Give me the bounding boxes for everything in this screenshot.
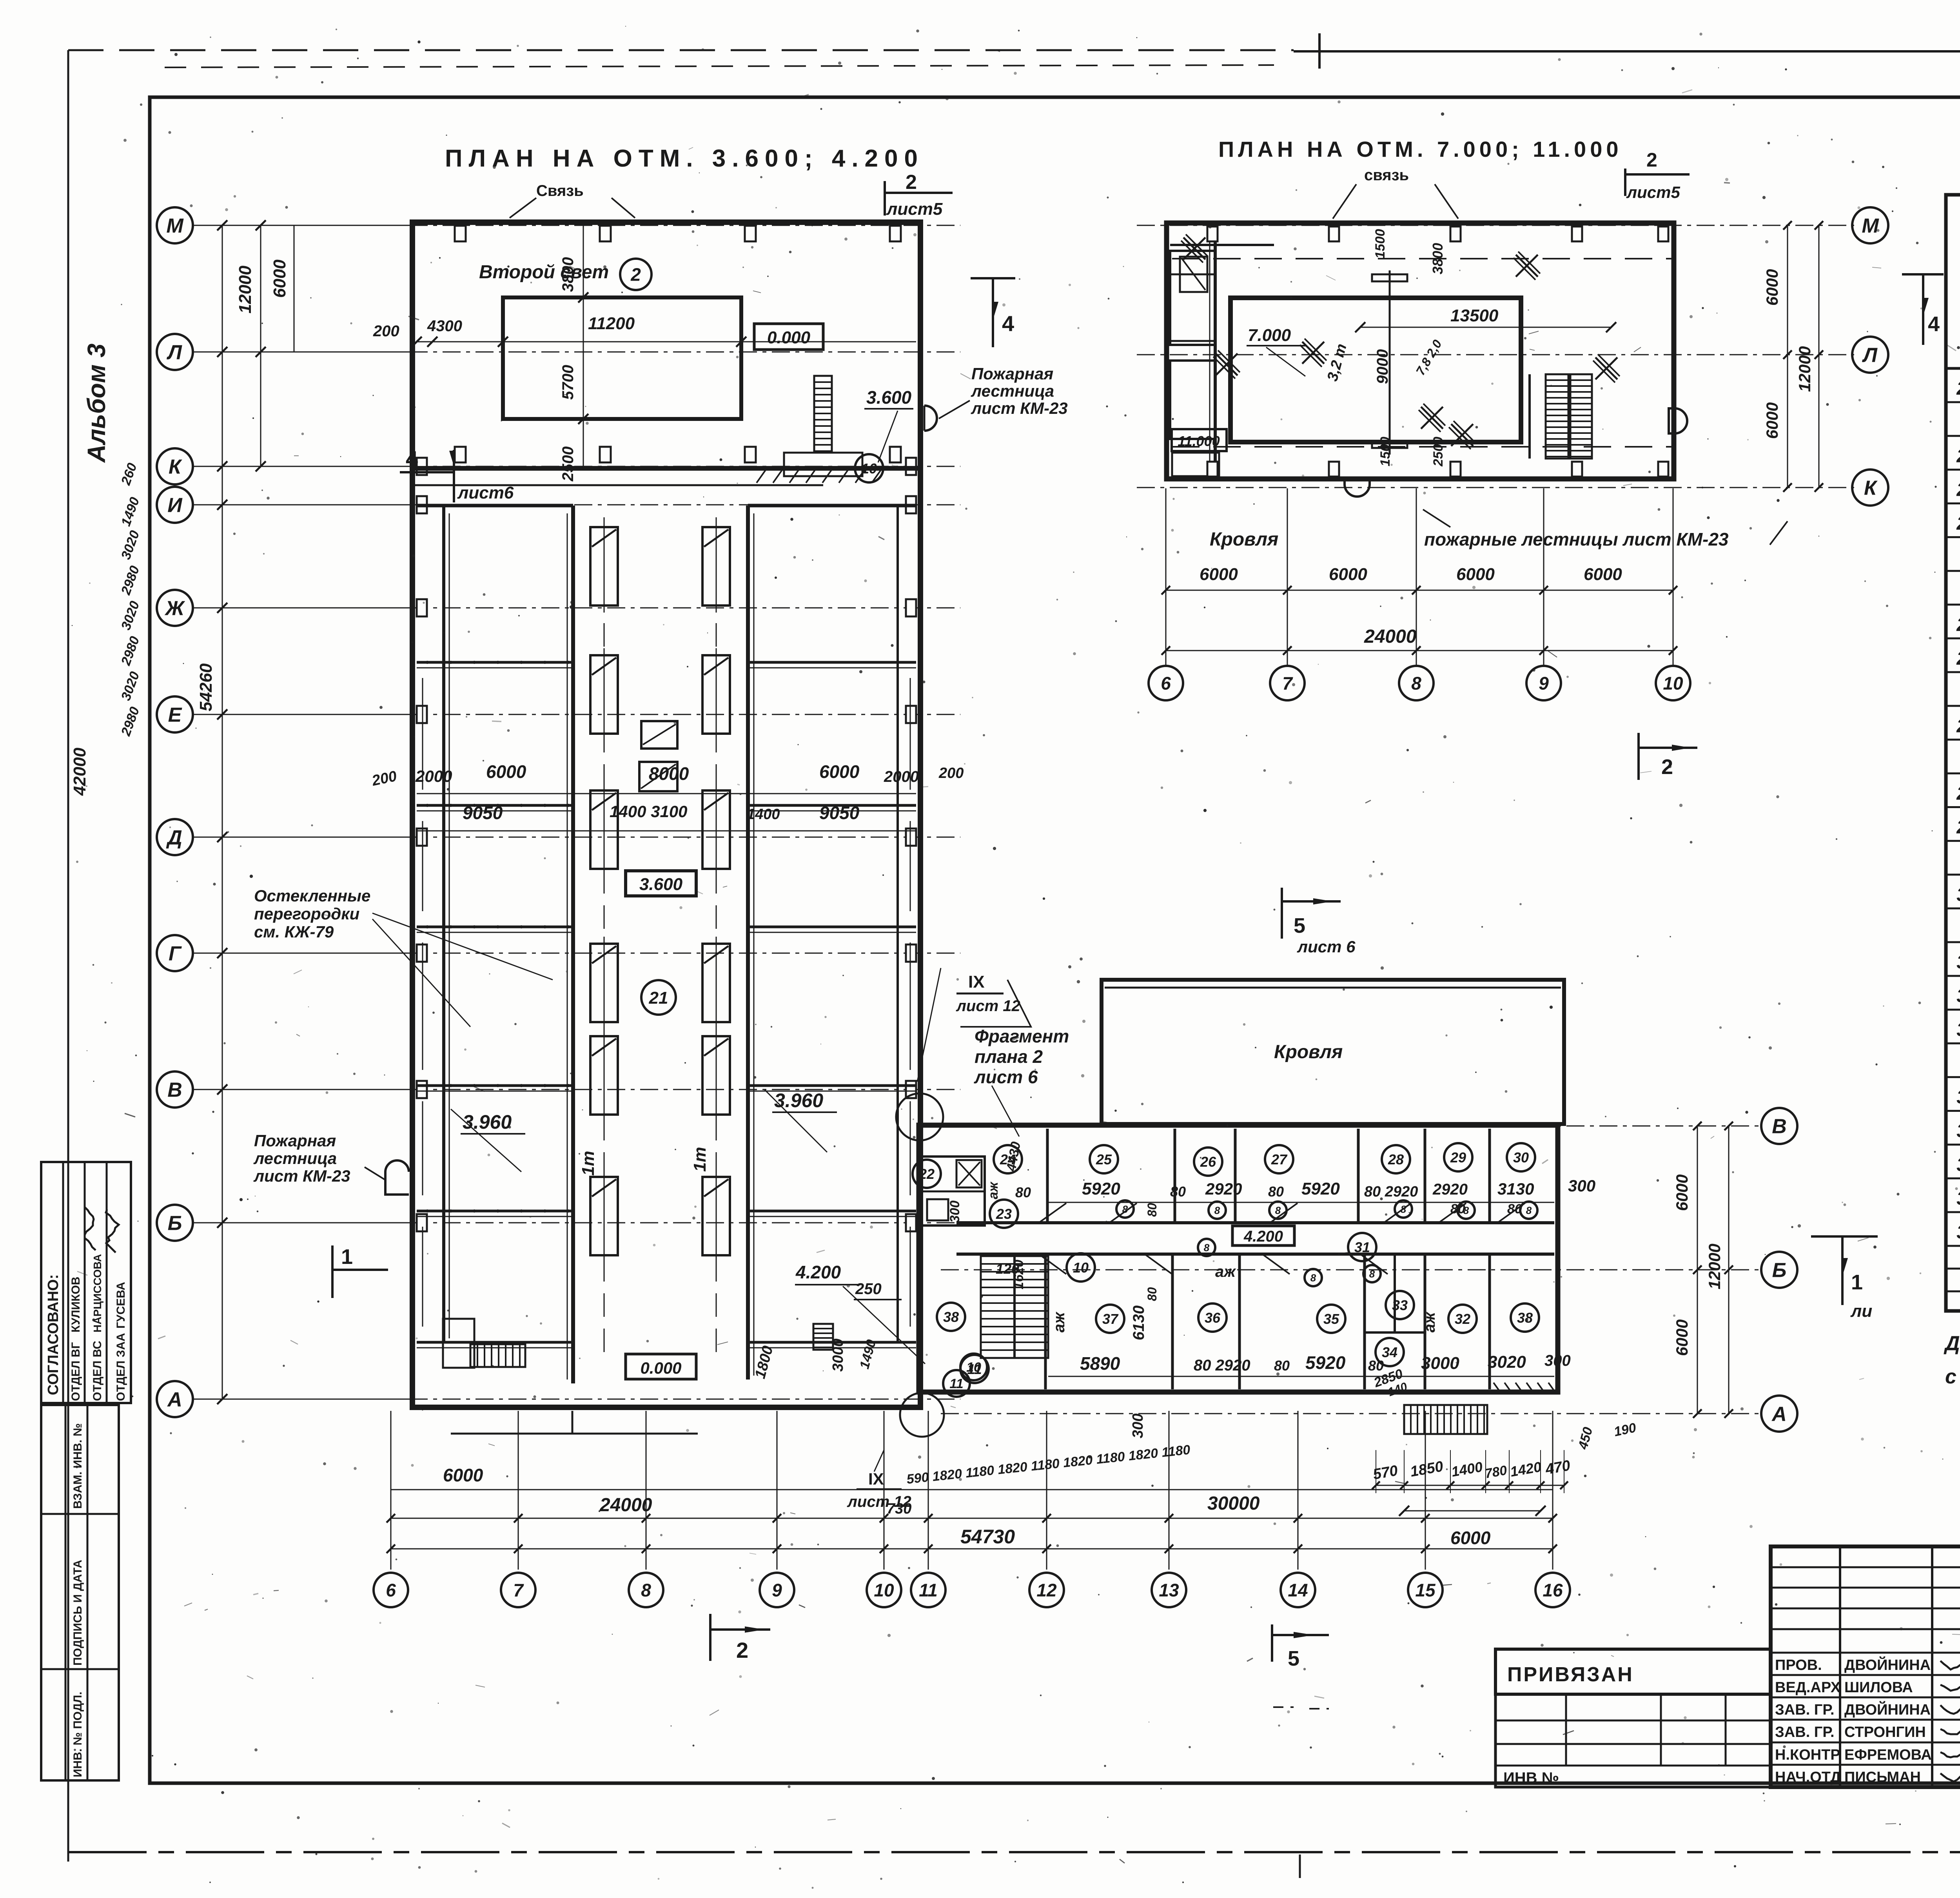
svg-text:4: 4 [406,446,418,471]
svg-text:лист6: лист6 [457,483,514,502]
svg-text:Пожарная: Пожарная [971,364,1053,383]
upper empty grid rows [1771,1566,1960,1568]
svg-text:80: 80 [1507,1202,1522,1216]
svg-text:11: 11 [919,1580,938,1601]
plan 2 cross hatches [1183,237,1205,259]
svg-text:12000: 12000 [1705,1244,1724,1289]
svg-text:Связь: Связь [536,182,584,199]
svg-text:300: 300 [1544,1352,1571,1369]
svg-text:80: 80 [1170,1184,1186,1200]
svg-text:6000: 6000 [486,761,526,782]
section 5 / list 6 above plan3 [1281,888,1283,939]
4.200 box [1232,1226,1294,1245]
svg-text:25: 25 [1956,615,1960,635]
svg-text:200: 200 [938,765,964,781]
glazed partition dots [426,504,429,507]
svg-text:6000: 6000 [1763,402,1781,439]
svg-text:В: В [1772,1115,1787,1138]
partitions above corridor [1046,1129,1049,1223]
svg-text:10: 10 [861,460,877,477]
svg-text:28: 28 [1388,1151,1404,1167]
svg-text:Второй свет: Второй свет [479,262,609,283]
svg-text:9000: 9000 [1374,349,1391,384]
plan 2 axis lines [1137,225,1854,226]
svg-text:33: 33 [1392,1297,1408,1313]
svg-text:6: 6 [386,1580,396,1601]
svg-text:Б: Б [168,1212,182,1235]
section mark 5 bottom [1271,1624,1273,1662]
svg-text:Н.КОНТР: Н.КОНТР [1775,1747,1840,1763]
svg-text:13: 13 [1159,1580,1179,1601]
svg-text:1m: 1m [579,1151,598,1176]
svg-text:4300: 4300 [427,317,462,335]
svg-text:ИНВ. № ПОДЛ.: ИНВ. № ПОДЛ. [71,1691,84,1777]
svg-text:Фрагмент: Фрагмент [975,1026,1069,1046]
svg-text:30: 30 [1513,1149,1529,1166]
svg-text:3020: 3020 [1488,1352,1526,1372]
svg-text:2: 2 [906,171,917,194]
svg-text:ОТДЕЛ ЗАА: ОТДЕЛ ЗАА [114,1333,127,1401]
section mark 4/list6 left [453,450,455,502]
svg-text:Ж: Ж [164,597,185,620]
svg-text:21: 21 [1956,378,1960,399]
fire ladder semicircle right [924,406,937,431]
svg-text:перегородки: перегородки [254,905,359,923]
plan 1 room walls [442,506,445,1342]
svg-text:35: 35 [1323,1311,1339,1327]
svg-text:А: А [167,1389,182,1411]
svg-text:НАЧ.ОТД: НАЧ.ОТД [1775,1769,1841,1786]
bottom dimension rows [391,1489,1553,1490]
plan 1 horizontal axis lines [193,225,410,226]
section mark 2/list5 top right [884,181,886,216]
plan 2 inner hall rect [1230,298,1521,442]
svg-text:30000: 30000 [1207,1493,1260,1514]
svg-text:ШИЛОВА: ШИЛОВА [1844,1679,1913,1696]
svg-text:31: 31 [1956,952,1960,973]
svg-text:12: 12 [1036,1580,1057,1601]
svg-text:38: 38 [1517,1310,1533,1326]
svg-text:Пожарная: Пожарная [254,1131,336,1150]
junction detail circles [896,1093,943,1140]
svg-text:1: 1 [1851,1271,1863,1294]
svg-text:пожарные лестницы лист КМ-23: пожарные лестницы лист КМ-23 [1424,529,1729,549]
svg-text:12000: 12000 [236,265,255,314]
svg-text:7.000: 7.000 [1248,326,1291,345]
svg-text:ДВОЙНИНА: ДВОЙНИНА [1844,1656,1931,1673]
circled 2 room [620,259,652,290]
svg-text:Е: Е [168,704,182,727]
svg-text:лист 6: лист 6 [974,1067,1038,1087]
plan 2 right dims [1787,225,1788,488]
svg-text:54730: 54730 [960,1526,1015,1548]
svg-text:Альбом 3: Альбом 3 [82,344,111,463]
sanitary rooms 22/23 fixtures [922,1157,985,1225]
centre pole symbol [1389,270,1391,455]
plan 3 outer walls [919,1125,1558,1392]
svg-text:24000: 24000 [1364,626,1417,647]
fold mark [1318,33,1321,69]
svg-text:8: 8 [1411,673,1421,694]
svg-text:3000: 3000 [830,1338,846,1372]
svg-text:6000: 6000 [1450,1528,1491,1548]
svg-text:А: А [1771,1403,1787,1426]
svg-text:2920: 2920 [1432,1181,1468,1198]
svg-text:22: 22 [1956,446,1960,466]
svg-text:33: 33 [1956,1019,1960,1040]
svg-text:аж: аж [986,1181,1001,1199]
svg-text:6000: 6000 [819,761,860,782]
svg-text:24000: 24000 [599,1495,652,1515]
svg-text:лист КМ-23: лист КМ-23 [971,399,1068,417]
svg-text:связь: связь [1364,167,1409,184]
svg-text:36: 36 [1205,1310,1221,1326]
door leafs on corridor plan 3 [1039,1222,1074,1224]
svg-text:80: 80 [1145,1287,1159,1301]
svg-text:2500: 2500 [559,446,577,482]
svg-text:11: 11 [967,1361,982,1377]
svg-text:1: 1 [341,1245,353,1269]
svg-text:М: М [166,215,184,237]
svg-text:23: 23 [996,1206,1012,1222]
svg-text:5: 5 [1294,914,1305,937]
svg-text:СОГЛАСОВАНО:: СОГЛАСОВАНО: [45,1274,62,1395]
svg-text:2920: 2920 [1205,1180,1242,1198]
svg-text:9050: 9050 [463,803,503,823]
svg-text:28: 28 [1956,783,1960,804]
svg-text:8: 8 [641,1580,651,1601]
svg-text:9: 9 [772,1580,782,1601]
svg-text:Б: Б [1772,1259,1787,1282]
svg-text:3.960: 3.960 [463,1111,512,1133]
dashed internal corridor lines [1172,258,1674,259]
svg-text:8: 8 [1204,1242,1210,1253]
svg-text:21: 21 [649,988,668,1008]
svg-text:32: 32 [1455,1311,1470,1327]
plan 2 left rooms [1214,227,1217,476]
svg-text:80 2920: 80 2920 [1364,1184,1418,1200]
svg-text:27: 27 [1271,1151,1288,1167]
wall column ticks top [455,226,466,241]
svg-text:24: 24 [1956,513,1960,534]
svg-text:25: 25 [1096,1151,1112,1167]
svg-text:80 2920: 80 2920 [1194,1357,1250,1374]
svg-text:6000: 6000 [1329,565,1367,584]
svg-text:5920: 5920 [1301,1179,1340,1198]
svg-text:22: 22 [918,1166,935,1182]
svg-text:2: 2 [1646,149,1657,171]
svg-text:8000: 8000 [649,763,689,784]
plan 1 outer walls [412,222,920,1407]
svg-text:аж: аж [1051,1311,1068,1332]
svg-text:6000: 6000 [1584,565,1622,584]
bottom grid circles [374,1573,408,1607]
svg-text:лестница: лестница [253,1149,337,1167]
bottom dims plan 3 [1376,1485,1564,1486]
outer trim border [68,49,1294,51]
svg-text:37: 37 [1956,1188,1960,1209]
svg-text:8: 8 [1275,1204,1281,1216]
svg-text:16: 16 [1543,1580,1563,1601]
corridor walls plan 3 [956,1221,1554,1224]
svg-text:2: 2 [630,265,641,285]
svg-text:6000: 6000 [1200,565,1238,584]
svg-text:5: 5 [1288,1647,1299,1670]
svg-text:И: И [167,494,183,517]
svg-text:лист 6: лист 6 [1297,937,1356,956]
svg-text:Кровля: Кровля [1210,529,1278,550]
svg-text:38: 38 [943,1309,959,1325]
svg-text:34: 34 [1382,1344,1397,1360]
svg-text:4: 4 [1928,312,1940,336]
svg-text:ПИСЬМАН: ПИСЬМАН [1844,1769,1921,1786]
svg-text:Д: Д [166,827,182,849]
svg-text:300: 300 [947,1200,962,1223]
svg-text:80: 80 [1145,1203,1159,1217]
svg-text:37: 37 [1102,1311,1119,1327]
svg-text:8: 8 [1526,1204,1532,1216]
svg-text:8: 8 [1214,1204,1220,1216]
svg-text:3.960: 3.960 [774,1089,823,1111]
svg-text:3.600: 3.600 [866,387,912,408]
svg-text:26: 26 [1200,1154,1216,1170]
left stamp inventory block [41,1405,119,1780]
svg-text:32: 32 [1956,986,1960,1006]
pilasters on left/right walls [417,458,427,475]
svg-text:27: 27 [1956,716,1960,736]
svg-text:лист 12: лист 12 [956,997,1020,1015]
svg-text:лист 12: лист 12 [847,1493,911,1510]
svg-text:ЗАВ. ГР.: ЗАВ. ГР. [1775,1724,1835,1740]
svg-text:42000: 42000 [70,747,89,796]
svg-text:0.000: 0.000 [640,1359,681,1377]
svg-text:ОТДЕЛ ВС: ОТДЕЛ ВС [91,1341,104,1401]
svg-text:4.200: 4.200 [1243,1228,1283,1245]
svg-text:80: 80 [1368,1358,1384,1374]
3.600 level box centre [626,871,696,896]
plan 2 bottom dims [1166,590,1673,591]
svg-text:К: К [1864,477,1878,500]
svg-text:6000: 6000 [270,259,289,298]
svg-text:ПРИВЯЗАН: ПРИВЯЗАН [1507,1663,1634,1686]
svg-text:38: 38 [1956,1222,1960,1243]
svg-text:с листами 2,3.: с листами 2,3. [1945,1365,1960,1388]
svg-text:6000: 6000 [1763,269,1781,306]
stair block plan 3 [981,1256,1048,1358]
svg-text:см. КЖ-79: см. КЖ-79 [254,923,334,941]
svg-text:6000: 6000 [1456,565,1495,584]
top stair block plan1 [814,376,832,453]
11.000 box [1172,429,1227,451]
section mark 2 below plan2 [1637,733,1640,780]
svg-text:10: 10 [1663,673,1683,694]
svg-text:2500: 2500 [1431,437,1446,467]
small stair bottom right of plan1 [813,1324,833,1350]
svg-text:34: 34 [1956,1087,1960,1108]
svg-text:36: 36 [1956,1155,1960,1175]
svg-text:Остекленные: Остекленные [254,886,370,905]
bottom circled 10 11 [960,1354,987,1380]
svg-text:1500: 1500 [1373,229,1388,259]
svg-text:10: 10 [874,1580,894,1601]
svg-text:4: 4 [1002,311,1014,336]
section mark 2 bottom [709,1614,711,1661]
svg-text:5890: 5890 [1080,1353,1120,1374]
small B circles (door marks) [1116,1200,1134,1218]
svg-text:29: 29 [1450,1149,1466,1166]
svg-text:5920: 5920 [1305,1352,1346,1373]
room 21 circle [641,980,676,1015]
svg-text:15: 15 [1415,1580,1436,1601]
svg-text:31: 31 [1354,1239,1370,1255]
svg-text:лист5: лист5 [1626,183,1680,201]
svg-text:26: 26 [1956,648,1960,669]
svg-text:ли: ли [1850,1302,1872,1321]
svg-text:29: 29 [1956,817,1960,838]
svg-text:6000: 6000 [1673,1175,1691,1211]
svg-text:Л: Л [166,341,182,364]
svg-text:плана 2: плана 2 [975,1046,1043,1067]
svg-text:ПЛАН НА ОТМ. 3.600; 4.200: ПЛАН НА ОТМ. 3.600; 4.200 [445,145,924,172]
svg-text:11200: 11200 [588,314,635,333]
partitions below corridor [1044,1254,1047,1389]
svg-text:6130: 6130 [1130,1305,1147,1340]
svg-text:ОТДЕЛ ВГ: ОТДЕЛ ВГ [69,1342,82,1401]
svg-text:ПЛАН НА ОТМ. 7.000; 11.000: ПЛАН НА ОТМ. 7.000; 11.000 [1218,137,1622,161]
hatched landing strip [757,470,766,483]
svg-text:лестница: лестница [971,382,1054,400]
svg-text:200: 200 [373,323,399,340]
svg-text:6: 6 [1161,673,1171,694]
svg-text:80: 80 [1015,1184,1031,1200]
svg-text:14: 14 [1288,1580,1308,1601]
svg-text:12000: 12000 [1795,346,1814,392]
plan 2 outer walls [1167,223,1674,479]
svg-text:80: 80 [1268,1184,1284,1200]
upper hall inner rectangle [503,297,741,419]
svg-text:11: 11 [949,1376,963,1391]
svg-text:1620: 1620 [1011,1260,1026,1289]
svg-text:IX: IX [968,972,985,992]
svg-text:1m: 1m [690,1147,710,1172]
svg-text:ИНВ №: ИНВ № [1503,1769,1559,1787]
svg-text:9050: 9050 [819,803,860,823]
svg-text:IX: IX [868,1470,884,1488]
svg-text:2000: 2000 [415,767,452,785]
svg-text:4.200: 4.200 [795,1262,841,1282]
svg-text:1400: 1400 [747,806,780,823]
corridor door symbols [590,520,618,613]
fold tick bottom [1299,1854,1301,1878]
svg-text:2: 2 [736,1638,748,1662]
upper hall dimension line [417,341,916,343]
svg-text:250: 250 [855,1280,882,1298]
plan 3 axis lines [941,1126,1760,1127]
svg-text:23: 23 [1956,480,1960,500]
svg-text:8: 8 [1310,1272,1316,1283]
section T1 list5 right of plan3 [1811,1235,1878,1238]
svg-text:54260: 54260 [196,663,216,711]
svg-text:лист КМ-23: лист КМ-23 [253,1167,350,1185]
svg-text:ЕФРЕМОВА: ЕФРЕМОВА [1844,1747,1932,1763]
svg-text:ПРОВ.: ПРОВ. [1775,1657,1822,1673]
svg-text:ЗАВ. ГР.: ЗАВ. ГР. [1775,1702,1835,1718]
room number circles plan 3 [994,1145,1022,1173]
svg-text:30: 30 [1956,885,1960,905]
svg-text:10: 10 [1073,1260,1089,1276]
svg-text:300: 300 [1568,1177,1595,1195]
svg-text:6000: 6000 [1673,1320,1691,1356]
svg-text:5920: 5920 [1082,1179,1120,1198]
svg-text:0.000: 0.000 [767,328,811,347]
svg-text:КУЛИКОВ: КУЛИКОВ [69,1277,82,1333]
svg-text:80: 80 [1450,1202,1465,1216]
section mark 1 left bottom [331,1245,334,1298]
svg-text:лист5: лист5 [886,199,943,219]
svg-text:ПОДПИСЬ И ДАТА: ПОДПИСЬ И ДАТА [71,1560,84,1666]
svg-text:5700: 5700 [559,365,577,400]
svg-text:9: 9 [1539,673,1549,694]
plan 2 top wall ticks [1207,227,1218,241]
svg-text:В: В [167,1079,182,1102]
svg-text:7: 7 [513,1580,524,1601]
svg-text:М: М [1862,215,1879,237]
svg-text:80: 80 [1274,1358,1290,1374]
svg-text:ДВОЙНИНА: ДВОЙНИНА [1844,1700,1931,1718]
svg-text:ВЕД.АРХ: ВЕД.АРХ [1775,1679,1841,1696]
svg-text:35: 35 [1956,1121,1960,1142]
plan 1 grid circles column [157,207,193,243]
signature rows [1771,1652,1960,1654]
svg-text:Кровля: Кровля [1274,1042,1343,1062]
svg-text:3130: 3130 [1497,1180,1534,1198]
privyazan box [1495,1649,1771,1694]
svg-text:1400 3100: 1400 3100 [610,802,688,821]
corridor centre dashed lines [604,517,605,1364]
svg-text:Данный лист смотреть совмес: Данный лист смотреть совместно [1944,1332,1960,1355]
svg-text:ГУСЕВА: ГУСЕВА [114,1282,127,1329]
vertical dim with 3800/5700/2500 [583,226,584,468]
hatched entry right corner [1494,1383,1501,1394]
0.000 level box [754,324,823,350]
plan 3 right dims [1697,1126,1698,1414]
svg-text:3000: 3000 [1421,1354,1459,1373]
left vertical dimension lines [222,225,223,1399]
svg-text:8: 8 [1369,1268,1375,1280]
svg-text:2000: 2000 [884,768,919,785]
section 2 list5 mark right top [1624,169,1626,196]
svg-text:Л: Л [1862,344,1878,367]
svg-text:7: 7 [1282,673,1293,694]
svg-text:аж: аж [1421,1311,1438,1332]
svg-text:6000: 6000 [443,1465,483,1485]
svg-text:СТРОНГИН: СТРОНГИН [1844,1724,1926,1740]
wall on axis K [410,466,923,471]
left stamp СОГЛАСОВАНО block [41,1162,131,1403]
plan 1 bottom entrance works [470,1344,525,1367]
svg-text:300: 300 [1130,1414,1146,1438]
exterior stair bottom plan 3 [1404,1405,1487,1434]
svg-text:аж: аж [1215,1263,1236,1280]
svg-text:Г: Г [169,943,182,965]
section mark 4 right [971,277,1015,279]
section mark 4 right of plan2 [1902,273,1944,276]
title block vertical lines [1839,1546,1841,1787]
roof rectangle [1102,980,1564,1124]
svg-text:К: К [169,456,182,479]
svg-text:13500: 13500 [1450,306,1499,325]
svg-text:3.600: 3.600 [639,875,683,894]
